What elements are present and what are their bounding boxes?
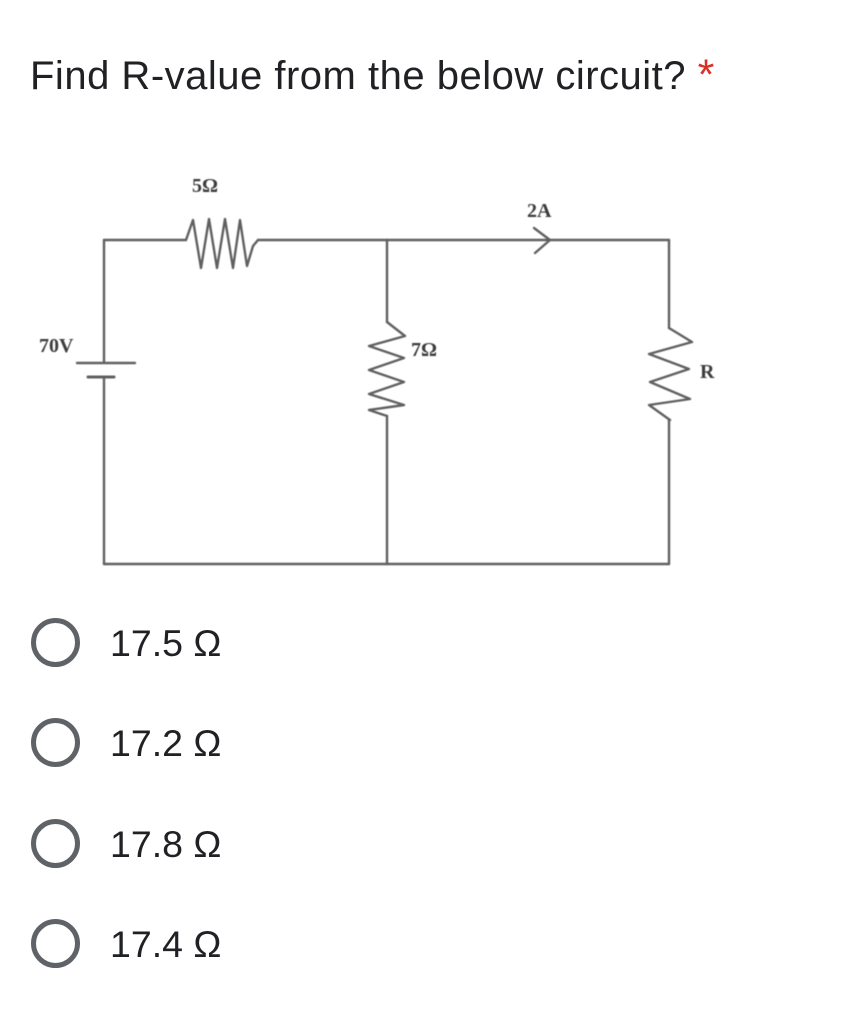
answer option 2: label 17.2 Ω xyxy=(110,722,221,765)
svg-text:70V: 70V xyxy=(39,335,74,357)
answer option 1: radio button xyxy=(31,618,80,667)
wire: bottom segment xyxy=(104,563,669,565)
wire: left segment from battery - plate down to bottom-left corner xyxy=(103,377,105,564)
answer option 1: label 17.5 Ω xyxy=(110,622,221,665)
battery V1 70V (long plate) xyxy=(77,362,135,364)
resistor R (vertical zigzag) xyxy=(649,328,692,420)
wire: middle branch top segment from node A to 7Ω xyxy=(386,240,388,322)
question title xyxy=(30,51,715,100)
wire: right segment from R down to bottom-right corner xyxy=(668,420,670,564)
answer option 3: radio button xyxy=(31,819,80,868)
answer option 3: label 17.8 Ω xyxy=(110,823,221,866)
wire: top-left segment from left corner to 5Ω resistor xyxy=(104,239,186,241)
svg-text:R: R xyxy=(700,361,715,383)
wire: left segment from top-left corner down to battery + plate xyxy=(103,240,105,363)
answer option 4: radio button xyxy=(31,919,80,968)
wire: middle branch bottom segment from 7Ω to bottom wire xyxy=(386,416,388,564)
wire: top segment from node A to top-right corner xyxy=(387,239,669,241)
answer option 2: radio button xyxy=(31,718,80,767)
current arrow 2A (chevron on top wire) xyxy=(534,228,550,253)
resistor R2 7Ω (vertical zigzag) xyxy=(369,322,405,416)
answer option 4: label 17.4 Ω xyxy=(110,923,221,966)
wire: right segment from top-right corner down to resistor R xyxy=(668,240,670,328)
svg-text:5Ω: 5Ω xyxy=(192,175,218,197)
svg-text:2A: 2A xyxy=(527,200,552,222)
svg-text:7Ω: 7Ω xyxy=(411,339,437,361)
circuit schematic image xyxy=(0,0,847,620)
resistor R1 5Ω (horizontal zigzag) xyxy=(186,219,258,268)
wire: top segment from 5Ω to node A xyxy=(258,239,387,241)
battery V1 70V (short plate) xyxy=(88,376,114,379)
